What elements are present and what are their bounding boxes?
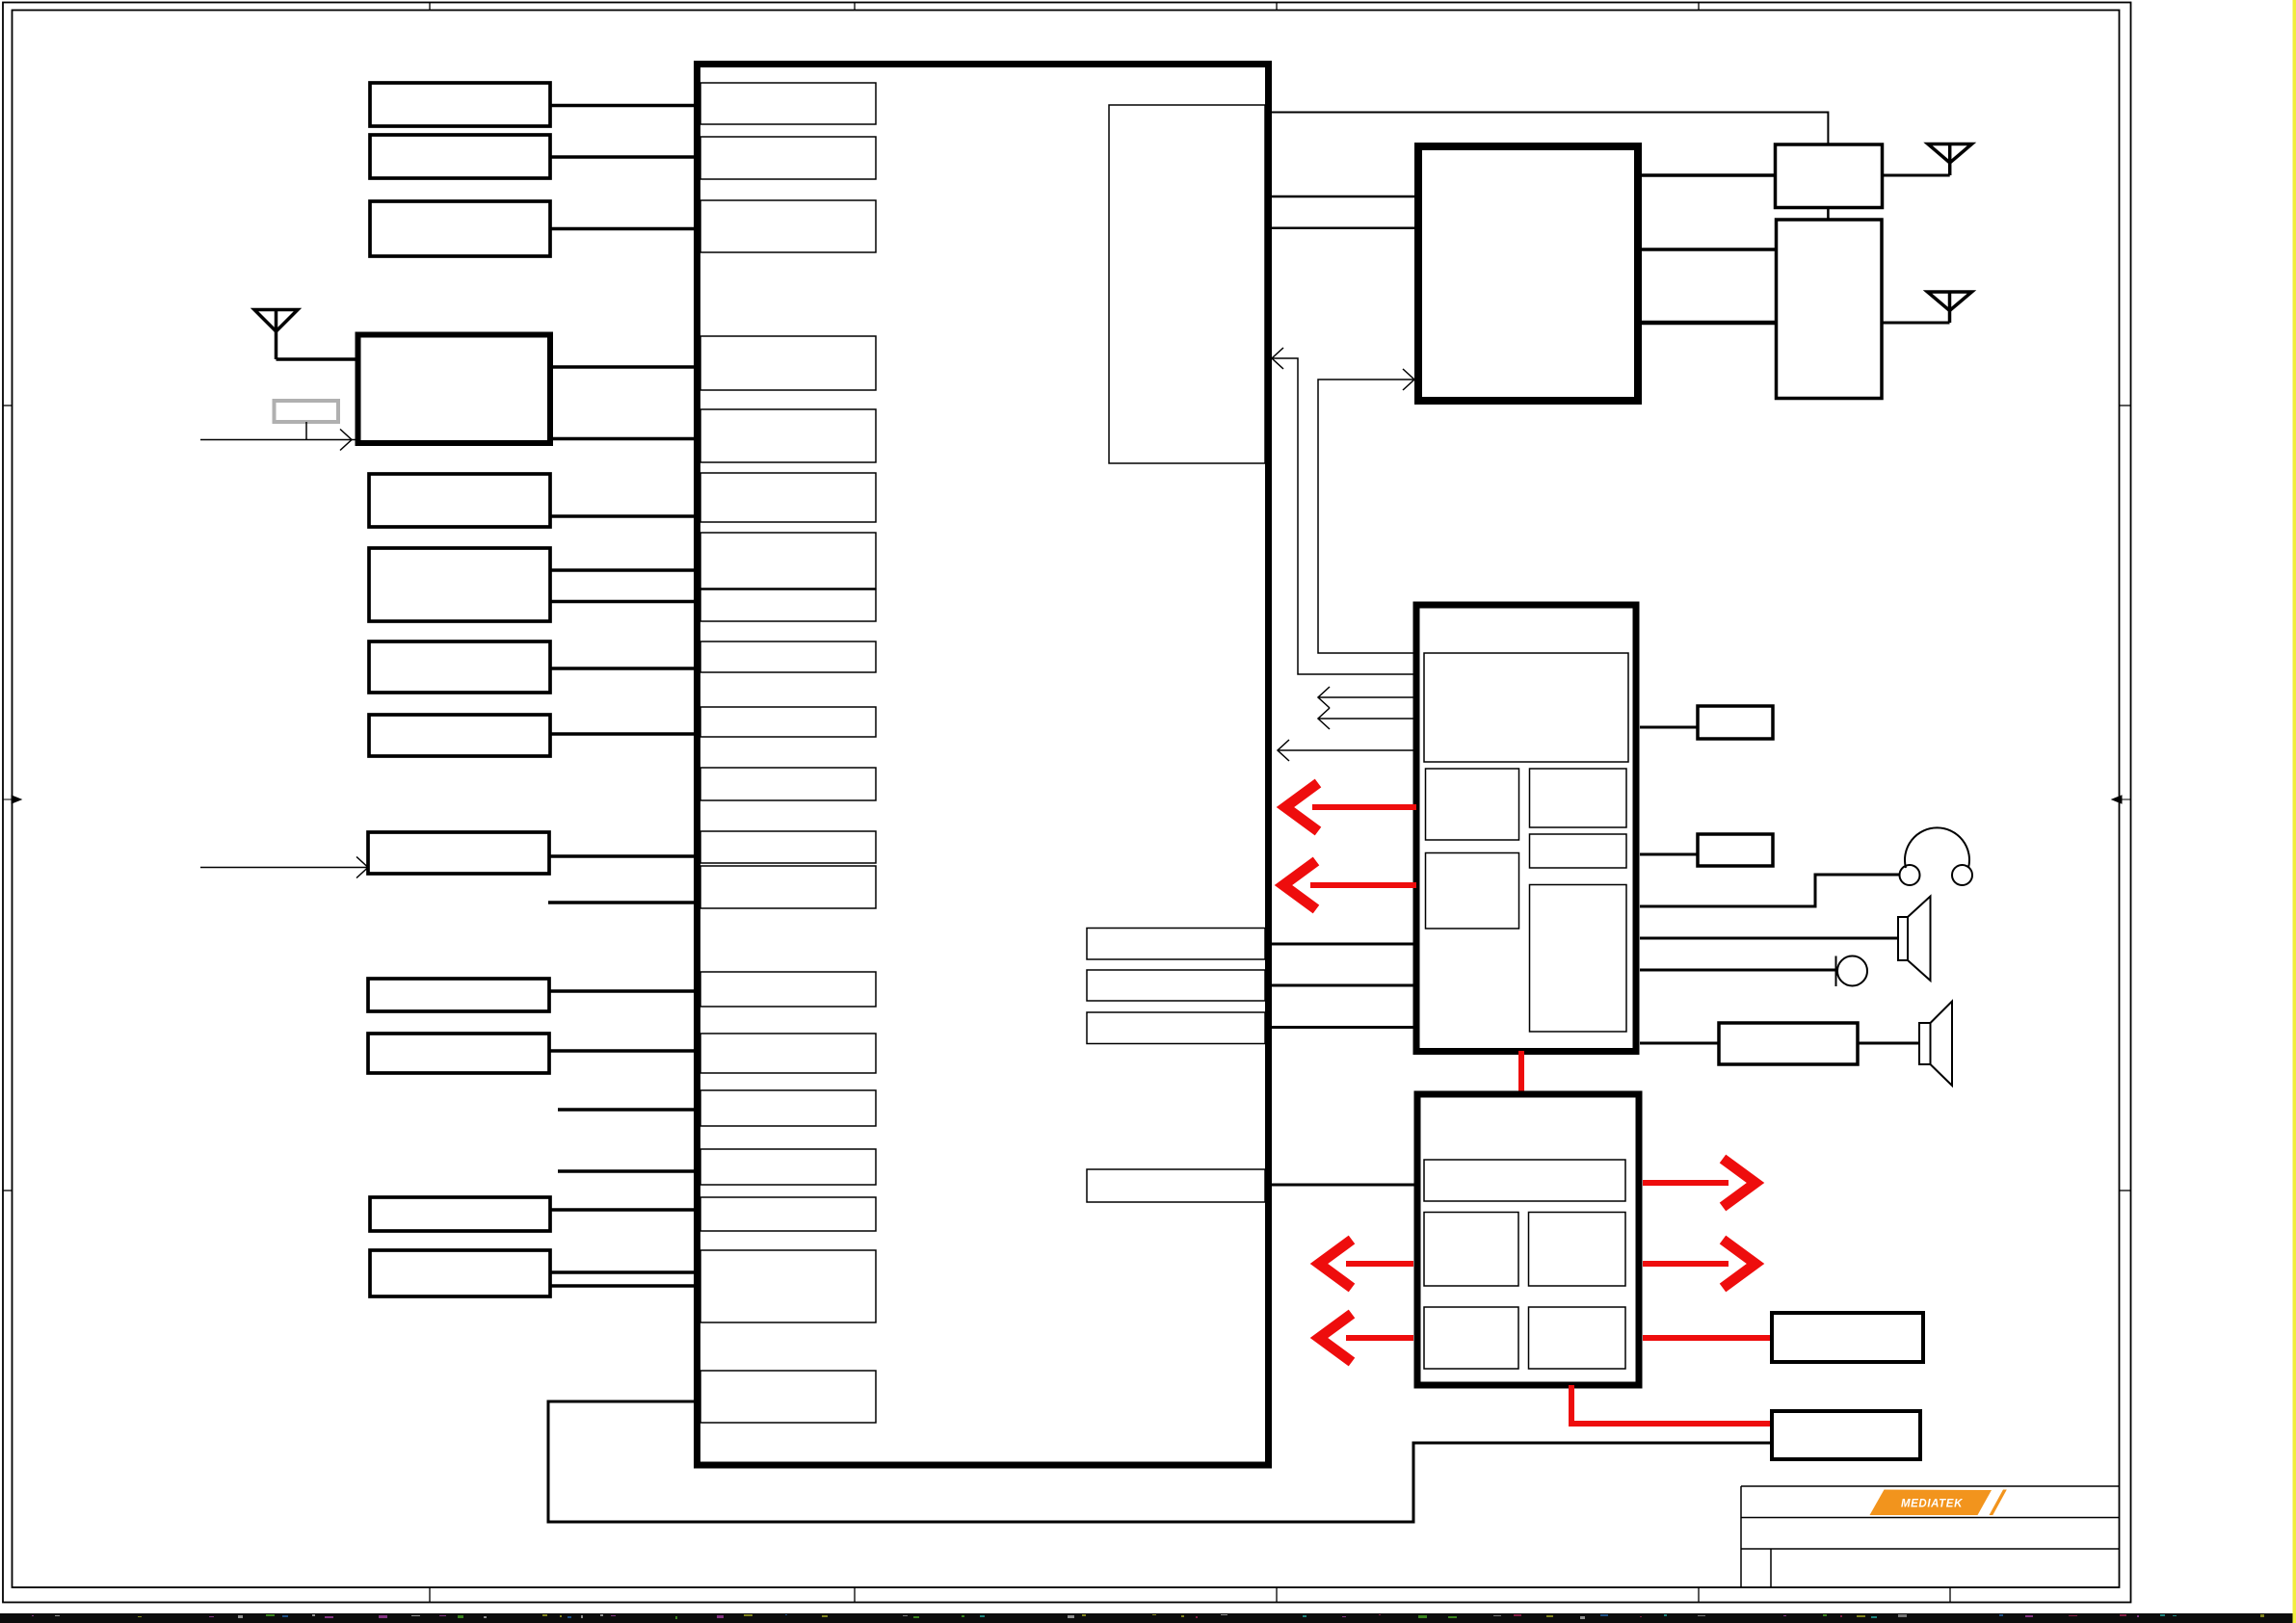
red arrow U4 left out 1 <box>1319 1240 1413 1288</box>
antenna ANT3 <box>1928 292 1972 323</box>
chip pin-function cell 19 <box>700 1250 876 1322</box>
wire analog block to chip with arrowhead <box>1272 348 1416 674</box>
antenna ANT2 <box>1928 144 1972 176</box>
wire chip to RF transceiver 1 <box>1272 196 1414 198</box>
audio amplifier box P3 <box>1719 1023 1858 1064</box>
RF transceiver U2 <box>1418 146 1638 401</box>
peripheral box BA <box>368 979 549 1011</box>
title block left edge <box>1740 1486 1742 1587</box>
peripheral box B4 <box>369 474 550 527</box>
receiver speaker icon <box>1898 897 1931 982</box>
U3 inner cell tall-right <box>1530 885 1627 1033</box>
main baseband chip U1 <box>698 65 1269 1466</box>
chip pin-function cell 5 <box>700 409 876 462</box>
peripheral box B5 <box>369 548 550 621</box>
U3 inner cell mid-left <box>1426 769 1519 840</box>
red arrow U3 out 1 <box>1285 783 1416 831</box>
wire BC to chip <box>550 1208 697 1212</box>
U4 inner cell low-right <box>1529 1307 1626 1369</box>
wire chip stub 1152 <box>558 1108 697 1112</box>
chip pin-function cell 8 <box>700 589 876 621</box>
vibrator box P1 <box>1698 706 1773 739</box>
chip pin-function cell 14 <box>700 972 876 1007</box>
red wire U3 to PMU <box>1518 1051 1524 1094</box>
red wire U4 to battery box <box>1571 1385 1772 1424</box>
wire B2 to chip <box>550 155 697 159</box>
chip pin-function cell 12 <box>700 831 876 863</box>
chip audio interface cell 1 <box>1087 929 1265 960</box>
red arrow U4 left out 2 <box>1319 1314 1413 1362</box>
wire chip stub 1216 <box>558 1169 697 1173</box>
wire U3 to microphone <box>1640 969 1837 972</box>
chip pin-function cell 3 <box>700 200 876 252</box>
wire B8 to chip <box>549 854 697 858</box>
wire BD to chip upper <box>550 1270 697 1274</box>
svg-text:MEDIATEK: MEDIATEK <box>1901 1499 1963 1510</box>
wire keypad loop bottom-left <box>548 1401 1772 1522</box>
wire chip to U3 pin 1 <box>1272 943 1416 946</box>
buzzer box P2 <box>1698 834 1773 866</box>
wire chip to U3 pin 3 <box>1272 1026 1416 1029</box>
wire S1 to antenna ANT2 <box>1883 174 1950 177</box>
wire U3 to headset <box>1640 875 1899 906</box>
wire PA control input <box>200 430 357 451</box>
chip pin-function cell 4 <box>700 336 876 390</box>
chip audio interface cell 3 <box>1087 1012 1265 1044</box>
wire U3 to vibrator box <box>1640 726 1698 729</box>
chip power interface cell <box>1087 1169 1265 1202</box>
wire U2 to S2 thick <box>1642 321 1777 326</box>
chip pin-function cell 9 <box>700 641 876 672</box>
wire U3 to buzzer box <box>1640 853 1698 856</box>
wire U3 to receiver speaker <box>1640 937 1898 940</box>
antenna ANT1 <box>254 310 298 360</box>
wire BD to chip lower <box>550 1284 697 1288</box>
battery box P5 <box>1772 1411 1920 1459</box>
title block low line <box>1741 1548 2120 1550</box>
wire grey pad to PA input <box>305 422 307 439</box>
chip pin-function cell 10 <box>700 707 876 737</box>
red arrow U3 out 2 <box>1283 861 1416 909</box>
wire BA to chip <box>549 989 697 993</box>
chip pin-function cell 20 <box>700 1371 876 1423</box>
chip pin-function cell 11 <box>700 768 876 800</box>
wire B5 to chip upper <box>550 568 697 572</box>
U3 inner cell small-right <box>1530 834 1627 868</box>
analog baseband block U3 <box>1416 605 1636 1052</box>
peripheral box BB <box>368 1034 549 1073</box>
wire S2 to antenna ANT3 <box>1882 322 1950 325</box>
chip pin-function cell 13 <box>700 866 876 908</box>
U4 inner cell low-left <box>1424 1307 1518 1369</box>
front-end module box S2 <box>1777 220 1883 399</box>
U4 inner cell mid-left <box>1424 1213 1518 1287</box>
title block mid line <box>1741 1517 2120 1519</box>
wire PA1 to chip upper <box>550 365 697 369</box>
headset icon <box>1900 827 1973 885</box>
RF power amplifier PA1 <box>358 335 551 444</box>
antenna switch box S1 <box>1776 144 1883 208</box>
chip pin-function cell 16 <box>700 1090 876 1126</box>
charger box P4 <box>1772 1313 1923 1362</box>
U4 inner cell wide <box>1424 1160 1625 1201</box>
peripheral box BD <box>370 1250 550 1296</box>
wire B1 to chip <box>550 104 697 108</box>
title block top line <box>1741 1485 2120 1487</box>
title block cell divider <box>1770 1549 1772 1587</box>
red wire U4 to charger box <box>1643 1335 1772 1341</box>
U3 inner cell mid-right <box>1530 769 1627 827</box>
memory box B1 <box>370 83 550 126</box>
wire chip to RF transceiver 2 <box>1272 227 1414 230</box>
wire B5 to chip lower <box>550 600 697 604</box>
red arrow U4 right out 1 <box>1643 1159 1755 1207</box>
peripheral box B8 <box>368 832 549 874</box>
wire control line arrow 1 <box>1318 687 1416 708</box>
wire U3 to audio amplifier <box>1640 1042 1719 1045</box>
SIM pad (grey) <box>275 401 339 422</box>
MEDIATEK logo <box>1870 1490 2007 1516</box>
U3 inner cell top <box>1424 653 1628 762</box>
chip internal memory block <box>1109 105 1265 463</box>
wire B4 to chip <box>550 514 697 518</box>
chip pin-function cell 15 <box>700 1034 876 1073</box>
memory box B3 <box>370 201 550 256</box>
peripheral box B7 <box>369 715 550 756</box>
wire chip stub 937 <box>548 901 697 904</box>
chip pin-function cell 17 <box>700 1149 876 1185</box>
power management unit U4 <box>1417 1094 1639 1385</box>
wire chip to antenna switch top <box>1272 113 1828 145</box>
wire BB to chip <box>549 1049 697 1053</box>
wire B6 to chip <box>550 667 697 670</box>
chip pin-function cell 7 <box>700 533 876 589</box>
chip pin-function cell 1 <box>700 83 876 124</box>
wire amplifier to loudspeaker <box>1858 1042 1919 1045</box>
wire U2 to antenna switch <box>1642 173 1776 177</box>
red arrow U4 right out 2 <box>1643 1240 1755 1288</box>
chip pin-function cell 2 <box>700 137 876 179</box>
wire control line arrow 2 <box>1318 708 1416 729</box>
peripheral box B6 <box>369 641 550 693</box>
peripheral box BC <box>370 1197 550 1231</box>
wire chip to U3 pin 2 <box>1272 984 1416 987</box>
U3 inner cell low-left <box>1426 853 1519 929</box>
memory box B2 <box>370 135 550 178</box>
wire ANT1 to PA <box>277 357 358 361</box>
wire control line arrow 3 <box>1278 740 1416 761</box>
wire U2 to S2 thin <box>1642 248 1777 251</box>
chip pin-function cell 18 <box>700 1197 876 1231</box>
wire analog block to RF with arrowhead <box>1318 369 1416 653</box>
wire S1 to S2 <box>1827 208 1830 221</box>
loudspeaker icon <box>1919 1002 1952 1086</box>
wire PA1 to chip lower <box>550 437 697 441</box>
wire B3 to chip <box>550 227 697 231</box>
wire B7 to chip <box>550 732 697 736</box>
chip audio interface cell 2 <box>1087 970 1265 1001</box>
wire chip to PMU <box>1272 1184 1417 1187</box>
U4 inner cell mid-right <box>1529 1213 1626 1287</box>
wire RTC input with arrowhead <box>200 857 368 878</box>
microphone icon <box>1836 956 1868 987</box>
chip pin-function cell 6 <box>700 473 876 522</box>
